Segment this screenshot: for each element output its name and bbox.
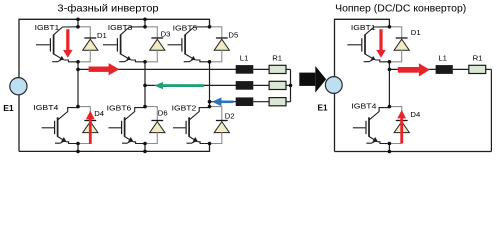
svg-text:D4: D4: [410, 110, 421, 119]
svg-text:E1: E1: [3, 103, 14, 113]
svg-text:D1: D1: [411, 28, 421, 37]
svg-text:E1: E1: [318, 104, 328, 113]
svg-text:IGBT5: IGBT5: [173, 23, 198, 32]
svg-text:D6: D6: [158, 109, 168, 118]
svg-text:IGBT1: IGBT1: [351, 23, 376, 32]
svg-text:IGBT1: IGBT1: [35, 23, 60, 32]
svg-text:D2: D2: [225, 111, 235, 120]
svg-text:IGBT3: IGBT3: [108, 23, 133, 32]
svg-text:L1: L1: [438, 53, 447, 62]
svg-text:D3: D3: [161, 29, 171, 38]
svg-text:IGBT6: IGBT6: [107, 103, 132, 112]
svg-text:3-фазный инвертор: 3-фазный инвертор: [57, 3, 158, 15]
svg-text:IGBT2: IGBT2: [172, 103, 197, 112]
svg-text:IGBT4: IGBT4: [33, 103, 59, 112]
svg-text:R1: R1: [473, 53, 483, 62]
svg-text:Чоппер (DC/DC конвертор): Чоппер (DC/DC конвертор): [335, 4, 466, 15]
svg-text:D1: D1: [97, 31, 107, 40]
svg-text:R1: R1: [272, 53, 282, 62]
svg-text:D5: D5: [228, 30, 238, 39]
svg-text:L1: L1: [240, 53, 249, 62]
svg-text:D4: D4: [94, 109, 105, 118]
svg-text:IGBT4: IGBT4: [351, 101, 377, 110]
